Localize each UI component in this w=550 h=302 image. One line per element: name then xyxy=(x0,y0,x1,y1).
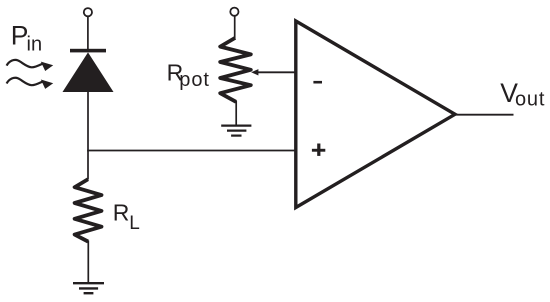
light arrow 2 xyxy=(7,78,54,89)
ground (below Rpot) xyxy=(221,126,251,136)
wire node A to resistor RL xyxy=(87,151,89,180)
potentiometer Rpot zigzag xyxy=(220,38,251,102)
label Vout xyxy=(500,78,545,111)
svg-text:R: R xyxy=(113,200,130,226)
svg-text:in: in xyxy=(27,34,43,56)
op-amp U1 triangle xyxy=(296,21,455,208)
wire photodiode to node A xyxy=(87,91,89,151)
wire RL to ground xyxy=(87,241,89,283)
ground (below RL) xyxy=(73,283,104,293)
output wire xyxy=(454,114,514,116)
wire node A to op-amp plus input xyxy=(87,150,296,152)
op-amp minus sign xyxy=(313,81,322,84)
light arrow 1 xyxy=(7,60,54,71)
Rpot wiper arrow to op-amp minus input xyxy=(251,69,296,75)
label Pin xyxy=(11,21,42,56)
wire Rpot to ground xyxy=(235,101,237,125)
photodiode D1 cathode bar xyxy=(70,49,106,53)
label Rpot xyxy=(167,60,210,91)
resistor RL zigzag xyxy=(75,179,102,241)
op-amp plus sign xyxy=(312,144,325,156)
svg-text:out: out xyxy=(515,89,545,111)
wire terminal to Rpot xyxy=(234,16,236,39)
terminal circle (Rpot top) xyxy=(230,8,238,16)
svg-text:pot: pot xyxy=(179,69,210,91)
svg-text:L: L xyxy=(129,213,140,234)
wire terminal to photodiode xyxy=(87,17,89,50)
photodiode D1 anode triangle xyxy=(63,52,114,92)
terminal circle (photodiode top) xyxy=(84,8,92,16)
label RL xyxy=(113,200,140,234)
